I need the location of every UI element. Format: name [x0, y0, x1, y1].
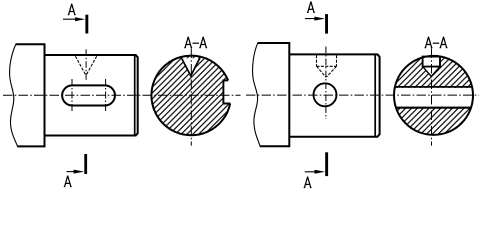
main horizontal centerline right view	[246, 94, 479, 96]
hidden drilled hole: bottom of cylinder	[317, 65, 337, 67]
keyway slot (stadium)	[62, 85, 115, 105]
flange outline right	[258, 43, 290, 146]
viewing arrow (bottom left)	[66, 171, 81, 173]
viewing arrow (top left)	[63, 18, 82, 20]
cutting plane bar A (top right)	[325, 14, 328, 33]
hole band bottom chord	[396, 107, 471, 109]
through-hole circle (front)	[314, 83, 337, 106]
vertical centerline left section	[190, 49, 192, 146]
viewing arrow (top right)	[305, 18, 322, 20]
V notch edges (cut center-hole)	[181, 57, 200, 76]
white void: drilled hole notch	[422, 55, 440, 76]
white void: keyway notch	[222, 80, 235, 105]
drill cone in section (thin V)	[423, 67, 440, 77]
section circle left	[151, 56, 230, 136]
shaft outline right	[289, 54, 379, 136]
break line (wavy) left flange	[10, 45, 18, 147]
label A (top right)	[307, 2, 315, 12]
section circle right	[394, 56, 473, 135]
viewing arrow (bottom right)	[305, 171, 322, 173]
hatching left section	[149, 53, 235, 139]
white void: V notch	[182, 58, 199, 75]
cutting plane bar A (top left)	[85, 15, 88, 34]
keyway notch edges	[223, 80, 230, 103]
break line (wavy) right flange	[253, 43, 261, 146]
cutting plane bar A (bottom right)	[325, 152, 328, 176]
flange (large diameter) outline	[16, 44, 45, 146]
chamfer line right shaft end	[374, 55, 376, 136]
hole vertical axis dash-dot	[325, 47, 327, 120]
hidden drilled hole: left wall	[316, 55, 318, 66]
label A (top left)	[68, 4, 76, 14]
label A-A (left section)	[184, 37, 207, 47]
hidden drill cone left	[317, 66, 327, 77]
hidden drill cone right	[326, 66, 336, 77]
hidden cone right edge	[86, 56, 97, 75]
slot left arc centerline	[71, 79, 73, 112]
vertical centerline right section	[431, 49, 433, 146]
label A (bottom right)	[304, 177, 312, 187]
chamfer line at shaft end	[134, 55, 136, 135]
label A-A (right section)	[425, 37, 448, 47]
drilled hole cut: rectangle + cone	[422, 56, 441, 67]
center-hole cone axis (dash-dot)	[85, 49, 87, 80]
label A (bottom left)	[64, 176, 72, 186]
slot right arc centerline	[105, 79, 107, 112]
hidden drilled hole: right wall	[336, 55, 338, 66]
cutting plane bar A (bottom left)	[84, 154, 87, 174]
white void: through hole band	[392, 88, 476, 107]
hole band top chord	[395, 86, 472, 88]
wire: main horizontal centerline left view	[3, 94, 241, 96]
hatching right section	[392, 53, 477, 139]
shaft outline	[45, 55, 138, 136]
hidden cone left edge	[75, 56, 86, 75]
